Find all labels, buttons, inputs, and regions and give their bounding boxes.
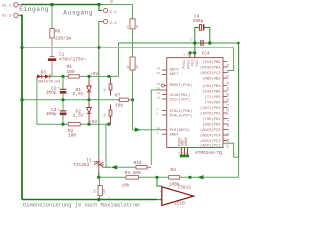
svg-text:TIC253: TIC253 [73, 162, 90, 168]
svg-text:3: 3 [178, 152, 180, 155]
svg-text:(ADC1)PC1: (ADC1)PC1 [200, 144, 221, 149]
svg-text:(O91)PB2: (O91)PB2 [202, 84, 221, 89]
resistor R3 [122, 170, 142, 189]
node rail2 left [20, 46, 23, 49]
svg-text:13: 13 [157, 92, 161, 95]
svg-text:10k: 10k [122, 183, 130, 189]
svg-text:+5V: +5V [90, 71, 98, 77]
resistor R2 [68, 123, 80, 139]
wire top phase junction to R5 column [99, 5, 133, 20]
node rail1 C4 right [208, 41, 211, 44]
node Y3 C3 [61, 123, 64, 126]
wire VCC pins join [190, 52, 195, 54]
node rail1 corner [237, 42, 240, 45]
connector X1-2 [2, 13, 21, 19]
IC4 top pin names rotated [183, 59, 200, 69]
wire Y1 rectified row [36, 75, 38, 77]
node Y1 D1 tap [87, 75, 90, 78]
wire triac to sense node [98, 172, 100, 178]
svg-text:+5V: +5V [89, 119, 97, 125]
svg-text:470n/275V~: 470n/275V~ [59, 56, 86, 62]
svg-text:(MISO)PB4: (MISO)PB4 [200, 66, 221, 71]
diode D1 zener [73, 78, 92, 100]
wire plus input [157, 199, 162, 201]
svg-text:1M: 1M [136, 25, 139, 29]
diode D2 zener [73, 102, 92, 125]
svg-text:2: 2 [157, 132, 159, 135]
resistor R5 [127, 19, 139, 29]
svg-text:R6: R6 [55, 29, 61, 35]
svg-text:(ADC2)PC2: (ADC2)PC2 [200, 139, 221, 144]
svg-text:6: 6 [187, 53, 189, 56]
node shunt bottom [97, 198, 100, 201]
IC4 bottom pin names rotated [179, 137, 189, 146]
wire left return column [36, 76, 38, 124]
connector X2-1 [104, 8, 118, 15]
svg-text:Eingang: Eingang [19, 6, 49, 13]
wire left neutral vertical [21, 15, 23, 199]
wire R9 down to zero cross node [132, 70, 134, 130]
resistor R9b (series pair lower) [104, 105, 112, 125]
resistor R7 [115, 93, 133, 109]
IC4 right pin stubs [223, 62, 228, 141]
svg-text:(ADC4)PC4: (ADC4)PC4 [200, 134, 221, 139]
node output [188, 176, 191, 179]
svg-text:(T0)PD4: (T0)PD4 [205, 101, 222, 106]
IC4 bottom ground pins [178, 148, 189, 156]
svg-text:TS912: TS912 [178, 185, 192, 191]
wire R4 to output node [180, 176, 239, 178]
svg-text:PC0(ADC0): PC0(ADC0) [170, 128, 191, 133]
node sense [97, 176, 100, 179]
resistor R10 [134, 160, 152, 169]
IC4 right pin names [200, 60, 221, 149]
connector X1-1 [2, 3, 21, 9]
wire rail2 GND [22, 47, 234, 49]
node VCC pin b [193, 51, 196, 54]
svg-text:-: - [159, 190, 162, 195]
node minus tap [155, 176, 158, 179]
node zero cross R7 [131, 98, 134, 101]
wire bottom rail [22, 199, 157, 201]
svg-text:19: 19 [157, 67, 161, 70]
wire SPI pin to rail1 branch [228, 48, 234, 71]
svg-text:1M: 1M [136, 65, 139, 69]
wire R6 top to phase wire [51, 5, 53, 29]
svg-text:AREF: AREF [170, 134, 180, 138]
svg-text:(INT1)PD3: (INT1)PD3 [200, 106, 221, 111]
svg-text:X1-2: X1-2 [2, 15, 12, 19]
svg-text:R8: R8 [104, 88, 107, 92]
svg-text:R8: R8 [94, 189, 97, 193]
svg-text:+: + [159, 198, 162, 203]
gate drive arrow [111, 165, 117, 169]
svg-text:100µ: 100µ [193, 18, 204, 24]
IC4 body [167, 51, 223, 148]
node junction top [97, 3, 100, 6]
node R6 top [50, 3, 53, 6]
triac T1 [73, 158, 111, 173]
IC4 reset pin bubble [161, 84, 164, 87]
wire Y2 mid row [22, 99, 119, 101]
node rail2 load crossing [98, 46, 101, 49]
node gnd pin c [186, 154, 189, 157]
resistor R8 (series pair upper) [104, 78, 112, 95]
svg-text:(T1)PD5: (T1)PD5 [205, 95, 222, 100]
svg-text:7: 7 [157, 108, 159, 111]
svg-text:(NB2)OB2: (NB2)OB2 [202, 77, 221, 82]
wire +5V riser to rail1 [118, 43, 120, 76]
svg-text:10k: 10k [115, 103, 123, 109]
svg-text:(RXD)PD0: (RXD)PD0 [202, 123, 221, 128]
wire Y3 riser down to gate drive row [106, 124, 111, 167]
diode D3 (dual BA157B-04) [37, 69, 61, 84]
IC4 left pin numbers [157, 67, 161, 134]
svg-text:29: 29 [157, 83, 161, 86]
resistor R4 [169, 167, 180, 188]
svg-text:100µ: 100µ [46, 89, 57, 95]
capacitor C4 [193, 14, 210, 43]
node gnd pin b [183, 154, 186, 157]
wire Y3 right of R2 [80, 123, 109, 125]
resistor R1 [66, 64, 83, 78]
svg-text:R5: R5 [127, 25, 130, 29]
svg-text:100: 100 [68, 132, 76, 138]
svg-text:(ADC3)PC3: (ADC3)PC3 [200, 71, 221, 76]
node Y1 C2 tap [61, 75, 64, 78]
wire sense row y177 [99, 176, 126, 178]
svg-text:XTAL1(PD6): XTAL1(PD6) [170, 109, 193, 114]
svg-text:Dimensionierung je nach Maxima: Dimensionierung je nach Maximalstrom [23, 202, 139, 208]
svg-text:IC4: IC4 [202, 51, 210, 57]
wire Y3 +5V row [37, 123, 68, 125]
resistor R9 [127, 57, 139, 70]
wire top phase X1-1 to junction [21, 4, 99, 6]
wire X2-2 down main load vertical [99, 22, 101, 159]
resistor R11 shunt [94, 179, 111, 201]
svg-text:IC1B: IC1B [174, 201, 185, 207]
svg-text:RESET(PC6): RESET(PC6) [170, 83, 193, 88]
svg-text:2,5V: 2,5V [73, 91, 84, 97]
svg-text:100µ: 100µ [46, 111, 57, 117]
svg-text:(910)PB0: (910)PB0 [202, 90, 221, 95]
op-amp IC1B [159, 185, 194, 207]
connector X2-2 [101, 19, 117, 26]
svg-text:P: P [110, 0, 113, 5]
IC4 left pin names [170, 69, 193, 138]
capacitor C2 [46, 78, 67, 100]
IC4 right pin numbers rotated [226, 64, 230, 148]
svg-text:X1-1: X1-1 [2, 4, 12, 8]
wire IC pin12 to R10 riser [151, 90, 162, 165]
svg-text:0R5: 0R5 [103, 188, 106, 194]
wire C1 bottom to D3 row [51, 61, 53, 71]
svg-text:R9: R9 [104, 113, 107, 117]
wire rail1 +5V top [119, 43, 239, 157]
node gnd pin a [180, 154, 183, 157]
svg-text:2-1: 2-1 [110, 11, 118, 15]
svg-text:R7: R7 [115, 93, 121, 99]
svg-text:(TXD)PD1: (TXD)PD1 [202, 117, 221, 122]
node Y2 C2 [61, 98, 64, 101]
svg-text:(ADC5)PC5: (ADC5)PC5 [200, 128, 221, 133]
arrow feedback [198, 175, 204, 180]
node Y2 D1 [87, 98, 90, 101]
svg-text:AGND: AGND [185, 137, 189, 146]
wire zero cross to IC pin with arrow [133, 129, 163, 131]
svg-text:OC1C(ICP): OC1C(ICP) [170, 98, 191, 103]
wire sense row to minus tap [139, 176, 169, 178]
svg-text:Ausgang: Ausgang [63, 10, 93, 17]
arrow into IC pin [135, 127, 141, 132]
svg-text:ADC7: ADC7 [170, 73, 179, 77]
capacitor C1 [48, 52, 86, 63]
svg-text:2-2: 2-2 [110, 22, 118, 26]
wire minus input [157, 177, 162, 186]
wire arrow to R10 [117, 166, 136, 168]
wire R5 to R9 [132, 29, 134, 57]
capacitor C5 inline [191, 37, 210, 46]
svg-text:OC1B(PB1): OC1B(PB1) [170, 93, 191, 98]
svg-text:8: 8 [157, 112, 159, 115]
svg-text:R4: R4 [171, 167, 177, 173]
node Y3 D2 [87, 123, 90, 126]
svg-text:22: 22 [157, 72, 161, 75]
node Y3 right junction [107, 123, 110, 126]
wire Y1 right to +5V riser [82, 75, 119, 77]
svg-text:100: 100 [67, 69, 75, 75]
svg-text:2,5V: 2,5V [73, 112, 84, 118]
node VCC pin a [188, 51, 191, 54]
svg-text:BA157B-04: BA157B-04 [39, 81, 61, 85]
IC4 left pins stubs [162, 70, 167, 134]
svg-text:R9: R9 [127, 65, 130, 69]
svg-text:(SCK)PB5: (SCK)PB5 [202, 60, 221, 65]
svg-text:VCC: VCC [196, 59, 200, 67]
capacitor C3 [46, 102, 67, 125]
svg-text:XTAL2(PD7): XTAL2(PD7) [170, 113, 193, 118]
svg-text:12: 12 [157, 96, 161, 99]
svg-text:(INT0)PD2: (INT0)PD2 [200, 112, 221, 117]
svg-text:220/1W: 220/1W [55, 36, 72, 42]
svg-text:ADC6: ADC6 [170, 69, 180, 73]
node rail1 C4 left [193, 41, 196, 44]
svg-text:C5: C5 [191, 37, 194, 41]
IC4 top power pins [183, 53, 195, 58]
wire R6 bottom to C1 [51, 38, 53, 57]
wire X2-1 hook [99, 5, 102, 11]
svg-text:4: 4 [183, 53, 185, 56]
svg-text:-N: -N [107, 197, 111, 200]
wire ADC sense pin to feedback [223, 143, 239, 177]
svg-text:11: 11 [157, 127, 161, 130]
svg-text:ATMEGA8-TQ: ATMEGA8-TQ [195, 150, 222, 156]
resistor R6 [50, 29, 72, 42]
node Y1 x110 tap [107, 75, 110, 78]
wire VCC riser [194, 43, 196, 53]
svg-text:R3 100: R3 100 [125, 170, 142, 176]
